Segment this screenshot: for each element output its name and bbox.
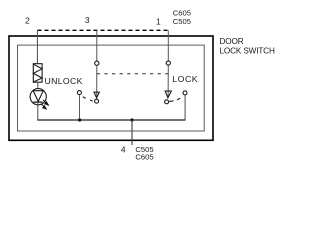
- junction unlock contact / bus: [78, 118, 81, 121]
- unlock switch contact: [77, 91, 81, 95]
- pin 1 terminal: [166, 61, 170, 65]
- svg-text:UNLOCK: UNLOCK: [45, 76, 83, 86]
- pin 3 terminal: [95, 61, 99, 65]
- LED D1: [30, 89, 46, 105]
- lock switch pivot contact: [165, 100, 169, 104]
- junction pin 4 / bus: [130, 118, 133, 121]
- mechanical link dashed: [97, 73, 169, 75]
- svg-text:LOCK SWITCH: LOCK SWITCH: [220, 46, 275, 55]
- svg-text:2: 2: [25, 16, 30, 26]
- svg-text:C605: C605: [135, 153, 153, 162]
- unlock switch pivot contact: [95, 99, 99, 103]
- svg-text:DOOR: DOOR: [220, 37, 244, 46]
- unlock switch throw dashed: [83, 97, 93, 102]
- unlock switch pole arm: [96, 66, 98, 97]
- wire unlock contact to bus: [79, 95, 81, 120]
- dashed harness rail pins 2-3-1: [37, 29, 169, 31]
- lock switch throw dashed: [169, 98, 180, 101]
- wire coil to LED: [37, 82, 39, 88]
- unlock coil R1: [33, 64, 42, 82]
- door lock switch inner case: [18, 45, 205, 131]
- wire pin 2: [36, 30, 38, 63]
- svg-text:3: 3: [85, 15, 90, 25]
- svg-text:C505: C505: [173, 17, 191, 26]
- wire pin 1: [167, 30, 169, 61]
- wire lock contact to bus: [184, 95, 186, 120]
- svg-text:1: 1: [156, 17, 161, 27]
- bus wire: [37, 119, 185, 121]
- svg-text:4: 4: [121, 144, 126, 154]
- svg-text:LOCK: LOCK: [172, 74, 198, 84]
- lock switch pole arm: [167, 65, 169, 96]
- wire pin 4: [131, 120, 133, 145]
- LED light arrows: [41, 100, 48, 109]
- lock switch contact: [183, 91, 187, 95]
- lock switch pole arrowhead: [165, 91, 171, 98]
- unlock switch pole arrowhead: [94, 92, 99, 98]
- door lock switch outer case: [9, 36, 213, 140]
- wire pin 3: [96, 30, 98, 61]
- wire LED to bus: [37, 103, 39, 120]
